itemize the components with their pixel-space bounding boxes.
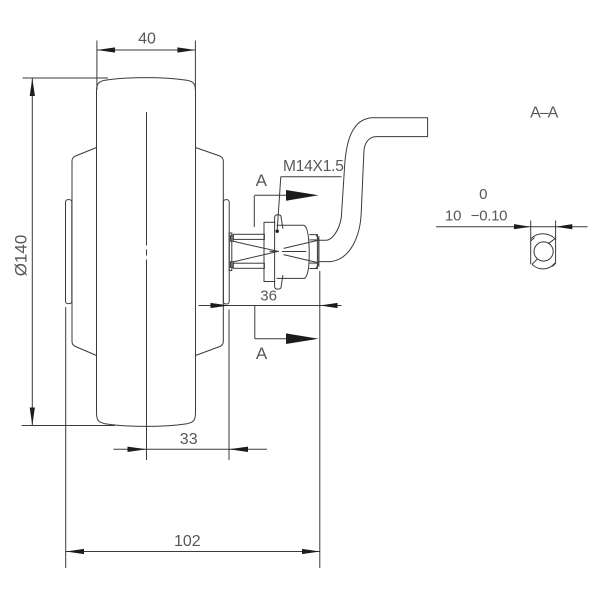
section A-A right flat [555,221,557,264]
wheel centerline [146,112,148,246]
arrowhead dim36 right [320,303,338,308]
wire: dimension 40 left extension line [96,41,98,91]
arrowhead D140 top [30,78,35,96]
wire: dimension 102 line [66,551,320,553]
arrowhead dim102 right [302,549,320,554]
svg-text:33: 33 [180,431,198,448]
wire: dimension D140 top extension [23,77,109,79]
handle tube outline [319,118,428,262]
wire: dimension 33 right extension [228,310,230,461]
section A-A flat edge upper-right [548,239,555,244]
svg-text:10: 10 [445,208,462,225]
svg-text:A–A: A–A [530,105,559,122]
leader dot M14X1.5 [276,230,279,233]
section arrow A lower [286,333,319,344]
cone diagonal lower [284,255,319,263]
nut corner chamfer bottom [316,263,319,268]
arrowhead D140 bottom [30,408,35,426]
axle flange [264,222,275,281]
nut chamfer line bottom [309,262,317,264]
section A-A flat edge lower-left [532,259,537,264]
arrowhead dim36 left [211,303,229,308]
cone diagonal upper [284,240,319,248]
spring cap top [231,236,234,242]
section line A upper [253,196,255,227]
axle nut [309,235,317,269]
wheel hub bulge right outline [196,148,224,356]
svg-text:M14X1.5: M14X1.5 [283,158,344,175]
wire: dimension 102 right extension [319,271,321,568]
wheel tire outline [97,78,196,427]
section A-A chamfer edge lower-right [552,264,555,267]
wire: dimension 102 left extension [65,307,67,568]
axle end washer [318,236,320,267]
arrowhead dim33 right [229,447,248,452]
arrowhead dim102 left [66,549,84,554]
wire: dimension 36 line [199,305,342,307]
wire: dimension 40 line [97,49,195,51]
wire: dimension 40 right extension line [194,41,196,91]
svg-text:−0.10: −0.10 [471,208,507,225]
svg-text:A: A [256,171,268,190]
wheel rim strip right [223,200,229,304]
castellation tab bottom [275,275,283,289]
axle axis line [282,251,306,253]
section A-A left flat [530,221,532,265]
section A-A bore circle [534,242,553,261]
wire: dimension 10 line [436,226,588,228]
axle body cone [277,225,310,278]
wheel hub bulge left outline [72,148,97,356]
section arrow A upper [286,190,319,201]
leader M14X1.5 underline [281,176,342,178]
arrowhead dim10 right [556,224,573,229]
castellation tab top [275,215,283,229]
section A-A top arc [531,234,555,239]
spring rail top [233,234,264,239]
axle center dash [270,250,280,252]
axle boss at hub [229,233,232,271]
svg-text:A: A [256,344,268,363]
leader M14X1.5 line [277,177,281,230]
spring rail bottom [233,263,264,268]
spring cap bottom [231,262,234,268]
wire: dimension 33 line [114,448,268,450]
arrowhead dim40 right [177,47,195,52]
nut corner chamfer top [316,235,319,240]
nut chamfer line top [309,239,317,241]
svg-text:0: 0 [479,186,487,203]
svg-text:Ø140: Ø140 [11,235,30,277]
wheel rim strip left [66,200,72,304]
section A-A chamfer edge upper-left [531,238,535,241]
wire: dimension D140 bottom extension [22,425,115,427]
section arrow tail upper [254,194,286,196]
section line A lower [254,306,256,339]
arrowhead dim10 left [514,224,531,229]
spring diagonal upper [233,241,278,251]
section arrow tail lower [255,338,286,340]
spring diagonal lower [233,251,278,262]
arrowhead dim40 left [97,47,115,52]
wire: dimension D140 line [31,78,33,426]
svg-text:102: 102 [174,533,201,550]
section A-A bottom arc [532,263,555,269]
svg-text:36: 36 [260,288,277,305]
arrowhead dim33 left [128,447,147,452]
svg-text:40: 40 [138,31,156,48]
